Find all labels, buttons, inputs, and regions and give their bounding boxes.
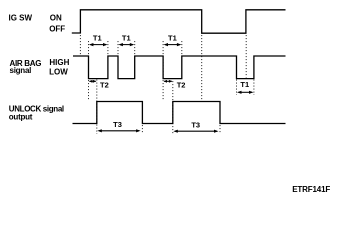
dotted guide x=181.8 (AIR BAG rise 3) (181, 41, 183, 56)
waveform AIR BAG signal (73, 56, 286, 79)
svg-text:IG SW: IG SW (9, 13, 33, 22)
svg-text:T2: T2 (177, 80, 186, 89)
arrow T1 fourth (237, 91, 254, 94)
dotted guide x=253.5 (AIR BAG rise 4) (253, 80, 255, 96)
arrow T1 first (89, 43, 108, 46)
arrow T3 second (173, 130, 218, 133)
svg-text:T1: T1 (93, 33, 102, 42)
svg-text:HIGH: HIGH (49, 58, 69, 67)
svg-text:T1: T1 (122, 33, 131, 42)
dotted guide x=163.1 (AIR BAG fall 3) (162, 41, 164, 101)
svg-text:output: output (9, 113, 33, 122)
svg-text:T1: T1 (240, 80, 249, 89)
dotted guide x=220 (UNLOCK fall 2) (219, 125, 221, 134)
svg-text:T3: T3 (113, 120, 122, 129)
waveform IG SW (72, 10, 286, 33)
arrow T2 second (164, 80, 173, 83)
dotted guide x=142.4 (UNLOCK fall 1) (141, 125, 143, 134)
svg-text:T2: T2 (100, 80, 109, 89)
dotted guide x=88.5 (AIR BAG fall 1) (88, 41, 90, 101)
dotted guide x=236.5 (AIR BAG fall 4) (236, 80, 238, 96)
dotted guide x=245.9 (IG SW rise 2) (245, 35, 247, 78)
dotted guide x=201.7 (IG SW fall) (201, 35, 203, 101)
dotted guide x=107.9 (AIR BAG rise 1) (107, 41, 109, 56)
svg-text:ON: ON (50, 14, 62, 23)
dotted guide x=80.4 (IG SW rise) (79, 35, 81, 56)
svg-text:ETRF141F: ETRF141F (292, 185, 330, 194)
arrow T1 third (164, 43, 182, 46)
dotted guide x=118 (AIR BAG fall 2) (117, 41, 119, 56)
arrow T2 first (89, 80, 97, 83)
svg-text:signal: signal (10, 66, 32, 75)
svg-text:LOW: LOW (49, 68, 68, 77)
svg-text:T1: T1 (168, 33, 177, 42)
arrow T1 second (118, 43, 134, 46)
waveform UNLOCK signal output (73, 102, 286, 124)
svg-text:OFF: OFF (49, 24, 65, 33)
dotted guide x=172.8 (UNLOCK rise 2) (172, 81, 174, 134)
svg-text:T3: T3 (191, 120, 200, 129)
dotted guide x=134.7 (AIR BAG rise 2) (134, 41, 136, 56)
arrow T3 first (97, 129, 140, 132)
dotted guide x=96.8 (UNLOCK rise 1) (96, 80, 98, 135)
